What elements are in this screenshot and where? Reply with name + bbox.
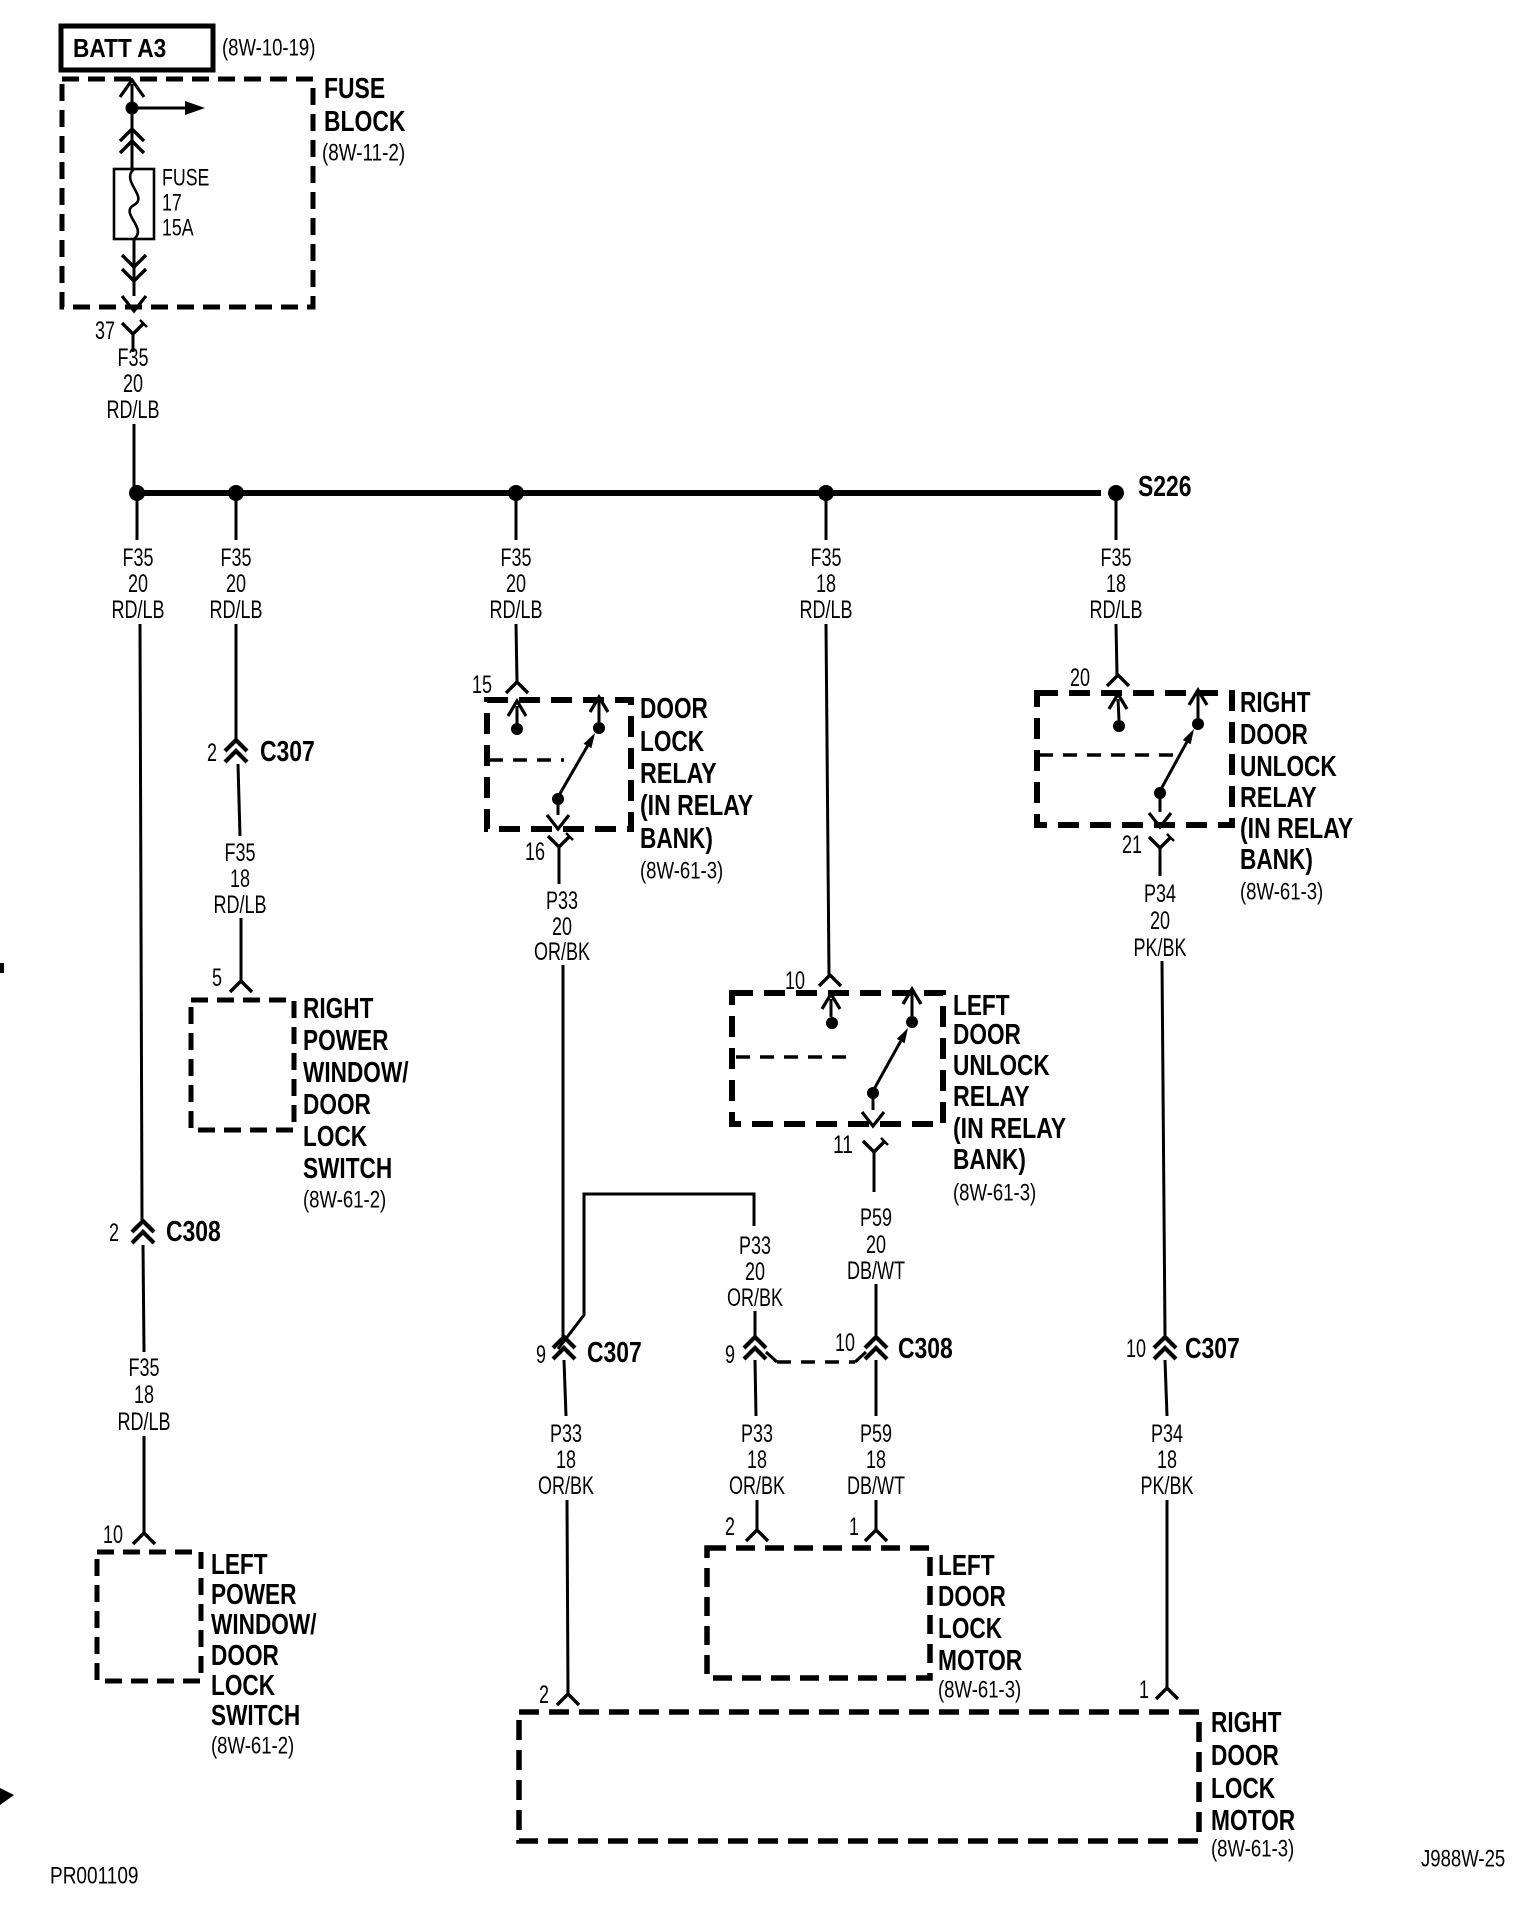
svg-text:F35: F35 bbox=[129, 1354, 160, 1382]
svg-text:C307: C307 bbox=[1185, 1333, 1240, 1365]
label LEFT DOOR UNLOCK RELAY (IN RELAY BANK) (8W-61-3) bbox=[953, 990, 1066, 1206]
wire from BATT A3 into fuse block with up arrow bbox=[120, 80, 144, 169]
left door lock motor pin 2 connector bbox=[725, 1513, 768, 1541]
wire branch 5 upper stub bbox=[1115, 493, 1118, 540]
svg-text:C308: C308 bbox=[898, 1333, 953, 1365]
wire below fuse with band chevrons and exit arrow bbox=[122, 239, 146, 311]
svg-text:2: 2 bbox=[207, 739, 217, 767]
svg-text:(8W-61-3): (8W-61-3) bbox=[1211, 1835, 1294, 1862]
svg-text:LEFT: LEFT bbox=[938, 1550, 995, 1582]
right unlock relay switch arm bbox=[1160, 742, 1187, 791]
svg-text:PK/BK: PK/BK bbox=[1134, 934, 1187, 962]
svg-text:POWER: POWER bbox=[211, 1579, 297, 1611]
junction dot branch 3 bbox=[508, 485, 524, 501]
svg-text:WINDOW/: WINDOW/ bbox=[303, 1057, 409, 1089]
power feed box BATT A3 bbox=[61, 26, 213, 70]
svg-text:RD/LB: RD/LB bbox=[107, 396, 160, 424]
right door lock motor dashed box bbox=[519, 1712, 1199, 1841]
svg-text:(8W-61-2): (8W-61-2) bbox=[303, 1186, 386, 1213]
svg-text:P33: P33 bbox=[546, 887, 578, 915]
svg-text:18: 18 bbox=[230, 865, 250, 893]
svg-text:DOOR: DOOR bbox=[1240, 719, 1308, 751]
svg-text:SWITCH: SWITCH bbox=[303, 1153, 392, 1185]
svg-text:RD/LB: RD/LB bbox=[118, 1408, 171, 1436]
svg-text:FUSE: FUSE bbox=[324, 73, 385, 105]
label FUSE BLOCK (8W-11-2) bbox=[322, 73, 405, 166]
svg-text:C307: C307 bbox=[587, 1337, 642, 1369]
label P34 20 PK/BK bbox=[1134, 880, 1187, 962]
left unlock relay coil pin arrow bbox=[822, 994, 840, 1017]
door lock relay coil pin arrow left bbox=[508, 701, 526, 724]
wire to right door lock motor bbox=[567, 1500, 568, 1694]
svg-text:LOCK: LOCK bbox=[1211, 1773, 1275, 1805]
door lock relay contact pin dot right bbox=[593, 722, 605, 734]
wire branch 3 upper stub bbox=[515, 493, 518, 540]
svg-text:2: 2 bbox=[725, 1513, 735, 1541]
svg-text:RELAY: RELAY bbox=[953, 1081, 1030, 1113]
svg-text:11: 11 bbox=[833, 1131, 853, 1159]
wire branch 1 upper stub bbox=[136, 493, 139, 540]
label F35 20 RD/LB from fuse block bbox=[107, 344, 160, 424]
label P33 18 OR/BK middle bbox=[729, 1420, 785, 1500]
svg-text:P33: P33 bbox=[739, 1232, 771, 1260]
svg-text:20: 20 bbox=[506, 570, 526, 598]
svg-text:(8W-61-3): (8W-61-3) bbox=[640, 857, 723, 884]
right unlock relay contact pin dot bbox=[1192, 718, 1204, 730]
band connector chevrons above fuse bbox=[120, 129, 144, 153]
right power window / door lock switch dashed box bbox=[191, 1000, 294, 1130]
svg-text:RD/LB: RD/LB bbox=[800, 596, 853, 624]
svg-text:RD/LB: RD/LB bbox=[214, 891, 267, 919]
svg-text:2: 2 bbox=[539, 1681, 549, 1709]
left unlock relay contact pin dot bbox=[906, 1016, 918, 1028]
svg-text:20: 20 bbox=[866, 1231, 886, 1259]
label F35 20 RD/LB branch 1 bbox=[112, 544, 165, 624]
svg-text:OR/BK: OR/BK bbox=[538, 1472, 594, 1500]
svg-text:P59: P59 bbox=[860, 1204, 892, 1232]
scan artifact left edge triangle bbox=[0, 1788, 14, 1805]
svg-text:LOCK: LOCK bbox=[303, 1121, 367, 1153]
wire segment to bus bbox=[133, 424, 136, 489]
right door lock motor pin 2 connector bbox=[539, 1681, 579, 1709]
right unlock relay arm dot bbox=[1154, 787, 1166, 799]
svg-text:DOOR: DOOR bbox=[938, 1581, 1006, 1613]
right unlock relay contact pin arrow bbox=[1189, 690, 1207, 718]
svg-text:UNLOCK: UNLOCK bbox=[1240, 751, 1337, 783]
svg-text:18: 18 bbox=[1157, 1446, 1177, 1474]
svg-text:20: 20 bbox=[128, 570, 148, 598]
door lock relay contact pin arrow right bbox=[590, 697, 608, 722]
right door lock motor pin 1 connector bbox=[1139, 1676, 1178, 1704]
left door lock motor dashed box bbox=[707, 1548, 930, 1678]
svg-text:LOCK: LOCK bbox=[938, 1613, 1002, 1645]
label F35 20 RD/LB branch 3 bbox=[490, 544, 543, 624]
left unlock relay contact pin arrow bbox=[903, 989, 921, 1016]
wire branch 2 upper stub bbox=[235, 493, 238, 540]
svg-text:18: 18 bbox=[134, 1381, 154, 1409]
wire branch 5 long run to C307 bbox=[1162, 961, 1165, 1335]
left door lock motor pin 1 connector bbox=[849, 1513, 887, 1541]
svg-text:LEFT: LEFT bbox=[953, 990, 1010, 1022]
wire branch 1 below C308 bbox=[143, 1245, 144, 1352]
svg-text:BANK): BANK) bbox=[953, 1144, 1026, 1176]
svg-text:P59: P59 bbox=[860, 1420, 892, 1448]
connector C308 pin 2 bbox=[109, 1219, 154, 1247]
left unlock relay output arrow pin 11 bbox=[862, 1093, 884, 1126]
svg-text:LOCK: LOCK bbox=[640, 726, 704, 758]
scan artifact left edge small bbox=[0, 963, 4, 973]
wire below C308 pin 9 middle bbox=[755, 1360, 756, 1416]
svg-text:20: 20 bbox=[745, 1258, 765, 1286]
left power window / door lock switch dashed box bbox=[97, 1552, 201, 1681]
left unlock relay internal divider bbox=[736, 1055, 846, 1059]
svg-text:PR001109: PR001109 bbox=[50, 1862, 139, 1889]
left unlock relay switch arm bbox=[873, 1041, 901, 1091]
svg-text:P33: P33 bbox=[741, 1420, 773, 1448]
wire branch 2 to C307 bbox=[235, 624, 238, 739]
svg-text:10: 10 bbox=[1126, 1335, 1146, 1363]
label P33 18 OR/BK left bbox=[538, 1420, 594, 1500]
svg-text:C308: C308 bbox=[166, 1216, 221, 1248]
label RIGHT DOOR UNLOCK RELAY (IN RELAY BANK) (8W-61-3) bbox=[1240, 687, 1353, 905]
svg-text:MOTOR: MOTOR bbox=[938, 1645, 1022, 1677]
wire tap to C307 pin 9 bbox=[754, 1311, 757, 1338]
junction dot in fuse block bbox=[126, 102, 139, 115]
label LEFT DOOR LOCK MOTOR (8W-61-3) bbox=[938, 1550, 1022, 1703]
wire branch 2 to switch bbox=[240, 918, 243, 981]
wire branch 4 upper stub bbox=[825, 493, 828, 540]
door lock relay pin 15 connector bbox=[472, 671, 528, 699]
svg-text:RELAY: RELAY bbox=[640, 758, 717, 790]
svg-text:J988W-25: J988W-25 bbox=[1421, 1845, 1505, 1872]
svg-text:(8W-61-3): (8W-61-3) bbox=[938, 1676, 1021, 1703]
fuse 17 15A element bbox=[114, 169, 154, 239]
wire below C307 pin 9 left bbox=[564, 1360, 566, 1416]
label F35 18 RD/LB branch 1 lower bbox=[118, 1354, 171, 1436]
svg-text:18: 18 bbox=[816, 570, 836, 598]
junction dot splice S226 bbox=[1108, 485, 1124, 501]
svg-text:WINDOW/: WINDOW/ bbox=[211, 1609, 317, 1641]
svg-text:20: 20 bbox=[123, 370, 143, 398]
svg-text:5: 5 bbox=[212, 964, 222, 992]
svg-text:FUSE: FUSE bbox=[162, 164, 209, 191]
svg-text:BLOCK: BLOCK bbox=[324, 106, 405, 138]
svg-text:(8W-61-3): (8W-61-3) bbox=[953, 1179, 1036, 1206]
svg-text:F35: F35 bbox=[1101, 544, 1132, 572]
label FUSE 17 15A bbox=[162, 164, 209, 241]
svg-text:RELAY: RELAY bbox=[1240, 782, 1317, 814]
label RIGHT POWER WINDOW/DOOR LOCK SWITCH (8W-61-2) bbox=[303, 993, 409, 1213]
svg-text:18: 18 bbox=[556, 1446, 576, 1474]
connector C308 pin 9 chevron bbox=[725, 1337, 766, 1369]
svg-text:OR/BK: OR/BK bbox=[729, 1472, 785, 1500]
svg-text:DB/WT: DB/WT bbox=[847, 1257, 905, 1285]
junction dot branch 4 bbox=[818, 485, 834, 501]
svg-text:F35: F35 bbox=[123, 544, 154, 572]
svg-text:1: 1 bbox=[1139, 1676, 1149, 1704]
label P33 20 OR/BK tap bbox=[727, 1232, 783, 1312]
left switch pin 10 connector bbox=[103, 1521, 155, 1549]
wire to left door lock motor pin 2 bbox=[756, 1500, 759, 1530]
right unlock relay coil pin dot bbox=[1113, 720, 1125, 732]
svg-text:DOOR: DOOR bbox=[953, 1019, 1021, 1051]
wire branch 4 to C308 bbox=[875, 1284, 878, 1335]
connector C307 pin 2 bbox=[207, 739, 247, 767]
connector C307 pin 9 (left) bbox=[536, 1337, 575, 1369]
right unlock relay internal divider bbox=[1039, 753, 1176, 757]
wire branch 1 to switch bbox=[143, 1436, 146, 1533]
svg-text:OR/BK: OR/BK bbox=[727, 1284, 783, 1312]
right door unlock relay pin 20 connector bbox=[1070, 664, 1129, 692]
wire branch 4 long run to relay bbox=[826, 624, 829, 975]
svg-text:RIGHT: RIGHT bbox=[1240, 687, 1311, 719]
svg-text:(IN RELAY: (IN RELAY bbox=[1240, 813, 1353, 845]
bus wire splice S226 bbox=[137, 490, 1101, 496]
left unlock relay coil pin dot bbox=[826, 1017, 838, 1029]
svg-text:BANK): BANK) bbox=[640, 823, 713, 855]
label DOOR LOCK RELAY (IN RELAY BANK) (8W-61-3) bbox=[640, 693, 753, 884]
svg-text:21: 21 bbox=[1122, 831, 1142, 859]
svg-text:S226: S226 bbox=[1138, 471, 1192, 503]
fuse block pin 37 connector bbox=[95, 317, 147, 352]
relay pin 16 connector bbox=[525, 833, 573, 884]
door lock relay arm dot bbox=[552, 793, 564, 805]
svg-text:18: 18 bbox=[1106, 570, 1126, 598]
left door unlock relay dashed box bbox=[732, 993, 943, 1124]
door lock relay dashed box bbox=[487, 700, 631, 829]
svg-text:(IN RELAY: (IN RELAY bbox=[640, 790, 753, 822]
label RIGHT DOOR LOCK MOTOR (8W-61-3) bbox=[1211, 1707, 1295, 1862]
connector C308 pin 10 chevron bbox=[835, 1329, 887, 1359]
svg-text:P34: P34 bbox=[1144, 880, 1176, 908]
svg-text:DOOR: DOOR bbox=[211, 1640, 279, 1672]
svg-text:(8W-61-3): (8W-61-3) bbox=[1240, 878, 1323, 905]
svg-text:OR/BK: OR/BK bbox=[534, 938, 590, 966]
relay pin 21 connector bbox=[1122, 831, 1174, 876]
svg-text:1: 1 bbox=[849, 1513, 859, 1541]
door lock relay output arrow pin 16 bbox=[547, 799, 569, 829]
svg-text:16: 16 bbox=[525, 838, 545, 866]
junction dot branch 2 bbox=[228, 485, 244, 501]
right unlock relay output arrow pin 21 bbox=[1149, 793, 1171, 827]
fuse block dashed box (8W-11-2) bbox=[62, 79, 313, 307]
svg-text:LOCK: LOCK bbox=[211, 1670, 275, 1702]
svg-text:LEFT: LEFT bbox=[211, 1549, 268, 1581]
svg-text:RD/LB: RD/LB bbox=[112, 596, 165, 624]
svg-text:20: 20 bbox=[1070, 664, 1090, 692]
svg-text:PK/BK: PK/BK bbox=[1141, 1472, 1194, 1500]
dashed link between connectors bbox=[766, 1352, 866, 1362]
wire branch 3 below relay bbox=[562, 965, 565, 1340]
svg-text:17: 17 bbox=[162, 189, 182, 216]
svg-text:P34: P34 bbox=[1151, 1420, 1183, 1448]
svg-text:18: 18 bbox=[866, 1446, 886, 1474]
label LEFT POWER WINDOW/DOOR LOCK SWITCH (8W-61-2) bbox=[211, 1549, 317, 1759]
label F35 18 RD/LB branch 4 bbox=[800, 544, 853, 624]
svg-text:SWITCH: SWITCH bbox=[211, 1700, 300, 1732]
left door unlock relay pin 10 connector bbox=[785, 967, 841, 995]
svg-text:POWER: POWER bbox=[303, 1025, 389, 1057]
svg-text:(8W-61-2): (8W-61-2) bbox=[211, 1732, 294, 1759]
svg-text:DB/WT: DB/WT bbox=[847, 1472, 905, 1500]
svg-text:20: 20 bbox=[226, 570, 246, 598]
wire branch 2 below C307 bbox=[238, 764, 240, 836]
relay pin 11 connector bbox=[833, 1131, 888, 1192]
svg-text:BATT A3: BATT A3 bbox=[73, 33, 166, 63]
svg-text:F35: F35 bbox=[118, 344, 149, 372]
label F35 18 RD/LB branch 5 bbox=[1090, 544, 1143, 624]
svg-text:18: 18 bbox=[747, 1446, 767, 1474]
svg-text:37: 37 bbox=[95, 317, 115, 345]
wire below C308 pin 10 bbox=[875, 1360, 878, 1416]
svg-text:MOTOR: MOTOR bbox=[1211, 1805, 1295, 1837]
svg-text:10: 10 bbox=[835, 1329, 855, 1357]
svg-text:9: 9 bbox=[536, 1341, 546, 1369]
door lock relay coil pin dot left bbox=[511, 723, 523, 735]
right door unlock relay dashed box bbox=[1037, 693, 1232, 825]
wire branch 3 to relay bbox=[516, 624, 517, 682]
svg-text:15A: 15A bbox=[162, 214, 194, 241]
svg-text:F35: F35 bbox=[225, 839, 256, 867]
svg-text:F35: F35 bbox=[811, 544, 842, 572]
left unlock relay arm dot bbox=[867, 1087, 879, 1099]
junction dot branch 1 bbox=[129, 485, 145, 501]
branch wire jog to P33 tap bbox=[558, 1194, 754, 1349]
arrow to other circuits bbox=[132, 107, 185, 110]
svg-text:20: 20 bbox=[552, 913, 572, 941]
svg-text:DOOR: DOOR bbox=[303, 1089, 371, 1121]
right switch pin 5 connector bbox=[212, 964, 252, 992]
label P59 18 DB/WT bbox=[847, 1420, 905, 1500]
label P59 20 DB/WT bbox=[847, 1204, 905, 1285]
svg-text:DOOR: DOOR bbox=[640, 693, 708, 725]
svg-text:P33: P33 bbox=[550, 1420, 582, 1448]
wire branch 5 below C307 bbox=[1165, 1360, 1167, 1416]
svg-text:9: 9 bbox=[725, 1341, 735, 1369]
svg-text:F35: F35 bbox=[501, 544, 532, 572]
label P33 20 OR/BK branch 3 bbox=[534, 887, 590, 966]
right unlock relay coil pin arrow bbox=[1109, 694, 1127, 720]
svg-text:15: 15 bbox=[472, 671, 492, 699]
svg-text:RD/LB: RD/LB bbox=[210, 596, 263, 624]
door lock relay internal divider bbox=[489, 758, 564, 762]
svg-text:2: 2 bbox=[109, 1219, 119, 1247]
svg-text:RIGHT: RIGHT bbox=[303, 993, 374, 1025]
svg-text:DOOR: DOOR bbox=[1211, 1740, 1279, 1772]
svg-text:C307: C307 bbox=[260, 736, 315, 768]
label F35 20 RD/LB branch 2 bbox=[210, 544, 263, 624]
connector C307 pin 10 bbox=[1126, 1335, 1176, 1363]
svg-text:RD/LB: RD/LB bbox=[1090, 596, 1143, 624]
svg-text:BANK): BANK) bbox=[1240, 844, 1313, 876]
wire branch 1 long run bbox=[140, 624, 142, 1220]
svg-text:(8W-10-19): (8W-10-19) bbox=[222, 34, 315, 61]
svg-text:(8W-11-2): (8W-11-2) bbox=[322, 139, 405, 166]
svg-text:20: 20 bbox=[1150, 907, 1170, 935]
svg-text:F35: F35 bbox=[221, 544, 252, 572]
wire branch 5 to relay bbox=[1116, 624, 1117, 675]
label F35 18 RD/LB branch 2 bbox=[214, 839, 267, 919]
svg-text:10: 10 bbox=[103, 1521, 123, 1549]
svg-text:RD/LB: RD/LB bbox=[490, 596, 543, 624]
wire to left door lock motor pin 1 bbox=[875, 1500, 878, 1530]
svg-text:RIGHT: RIGHT bbox=[1211, 1707, 1282, 1739]
svg-text:(IN RELAY: (IN RELAY bbox=[953, 1113, 1066, 1145]
wire to right door lock motor pin 1 bbox=[1166, 1500, 1169, 1688]
label P34 18 PK/BK bbox=[1141, 1420, 1194, 1500]
door lock relay switch arm bbox=[558, 746, 587, 797]
svg-text:UNLOCK: UNLOCK bbox=[953, 1050, 1050, 1082]
